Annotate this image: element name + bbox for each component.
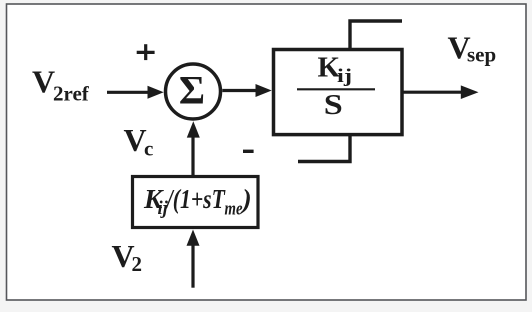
block U2: integrator Kij/S (274, 50, 403, 135)
wire: Vc feedback arrow into summing junction (upward) (187, 121, 200, 176)
label Kij/(1+sTme) (lag block transfer function) (143, 183, 252, 220)
fraction bar of Kij/S (297, 88, 375, 90)
label Vsep (output signal) (448, 29, 497, 66)
wire: summing junction to Kij/S block (222, 84, 271, 97)
label V2ref (reference voltage input) (32, 64, 90, 106)
wire: output arrow from integrator (403, 85, 479, 99)
lower limiter mark on integrator (298, 135, 350, 162)
svg-text:c: c (144, 136, 153, 160)
block U3: lag compensator Kij/(1+sTme) (133, 177, 259, 228)
svg-text:2ref: 2ref (53, 82, 90, 106)
svg-text:/(1+sT: /(1+sT (165, 183, 226, 214)
minus sign (summing junction - input) (243, 150, 254, 153)
svg-text:V: V (32, 64, 55, 100)
label Kij (numerator of integrator gain) (318, 52, 353, 87)
summing junction U1 (Σ) (166, 64, 221, 119)
wire: V2 input arrow into lag block (upward) (187, 230, 200, 288)
svg-text:Σ: Σ (179, 67, 205, 112)
svg-text:sep: sep (467, 42, 496, 66)
label V2 (terminal voltage input) (112, 238, 143, 276)
svg-text:S: S (324, 89, 343, 121)
svg-text:me: me (225, 200, 243, 220)
upper limiter mark on integrator (350, 21, 402, 49)
plus sign (summing junction + input) (137, 44, 155, 60)
svg-text:ij: ij (337, 66, 352, 87)
svg-text:2: 2 (132, 252, 143, 276)
wire: V2ref input arrow into summing junction (107, 86, 164, 99)
label Vc (feedback control signal) (124, 122, 154, 160)
